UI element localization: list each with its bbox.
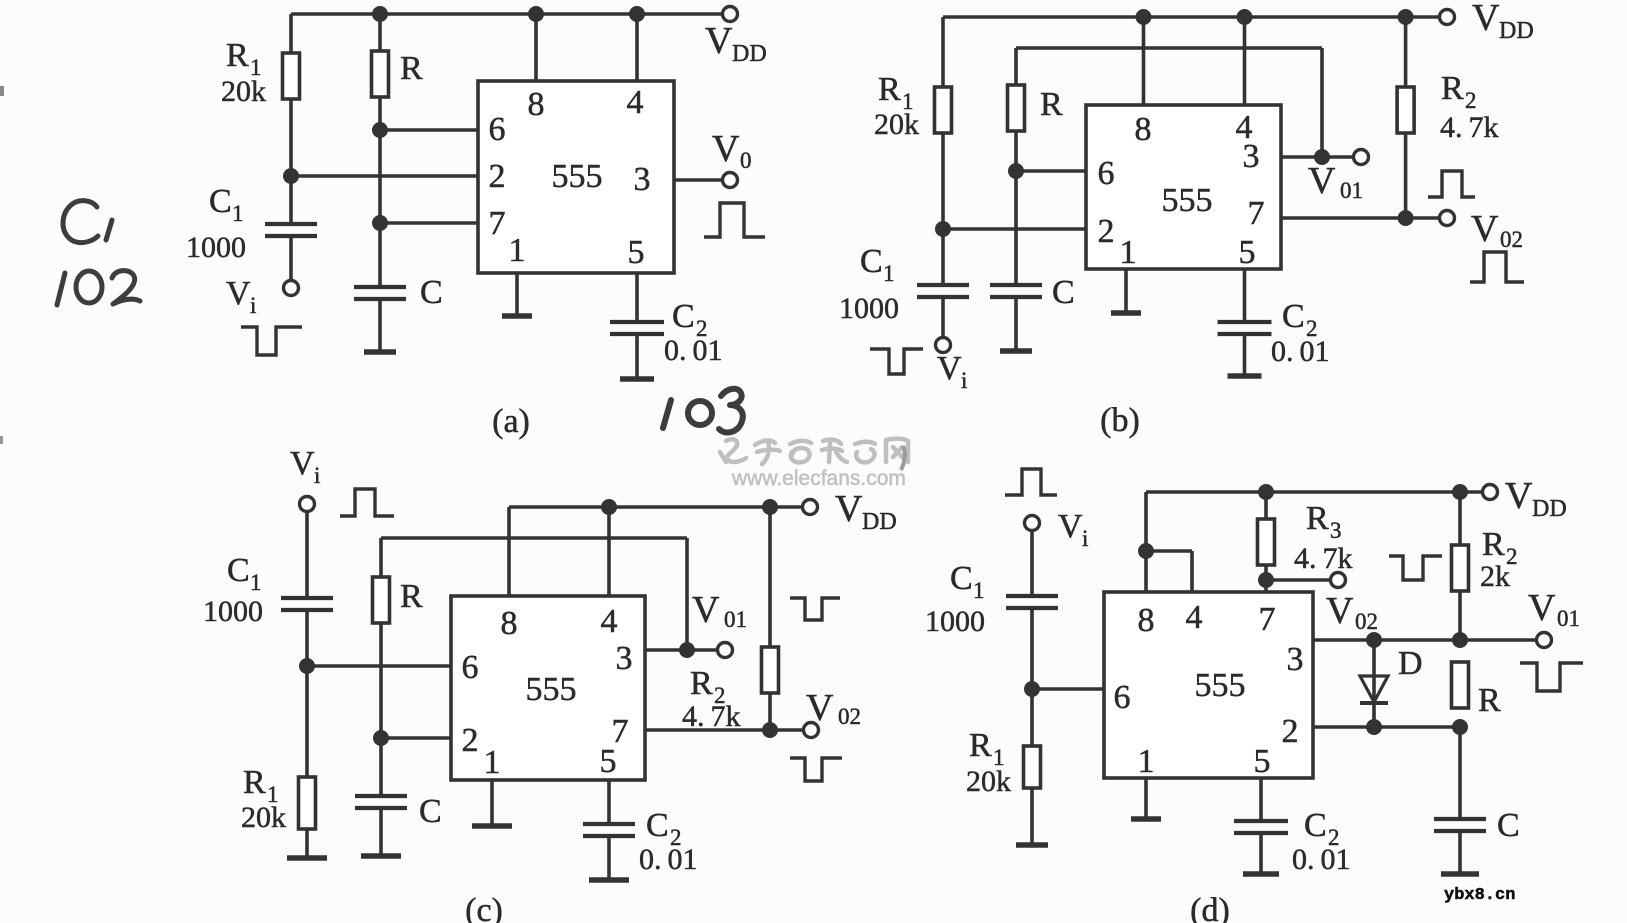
svg-text:C: C bbox=[646, 807, 669, 844]
svg-text:DD: DD bbox=[732, 41, 767, 67]
svg-text:V: V bbox=[806, 687, 834, 729]
svg-text:(a): (a) bbox=[492, 403, 530, 440]
svg-text:8: 8 bbox=[528, 86, 545, 123]
svg-text:1: 1 bbox=[973, 578, 985, 603]
svg-text:2k: 2k bbox=[1480, 560, 1510, 593]
svg-text:7: 7 bbox=[489, 205, 506, 242]
svg-text:1: 1 bbox=[1138, 743, 1155, 780]
svg-text:R: R bbox=[243, 764, 266, 801]
svg-text:8: 8 bbox=[1135, 111, 1152, 148]
svg-text:4: 4 bbox=[1186, 599, 1203, 636]
svg-text:3: 3 bbox=[1243, 138, 1260, 175]
svg-text:0. 01: 0. 01 bbox=[639, 843, 698, 876]
svg-text:i: i bbox=[314, 463, 320, 488]
svg-text:02: 02 bbox=[1355, 609, 1378, 634]
svg-text:i: i bbox=[250, 293, 256, 318]
svg-text:2: 2 bbox=[1282, 713, 1299, 750]
svg-text:V: V bbox=[1471, 208, 1499, 250]
svg-text:01: 01 bbox=[1340, 178, 1363, 203]
svg-text:R: R bbox=[226, 37, 249, 74]
svg-text:V: V bbox=[1472, 0, 1500, 39]
svg-text:02: 02 bbox=[1500, 227, 1523, 252]
svg-text:R: R bbox=[400, 50, 423, 87]
svg-text:1000: 1000 bbox=[186, 231, 246, 264]
svg-text:5: 5 bbox=[1254, 743, 1271, 780]
svg-text:5: 5 bbox=[600, 743, 617, 780]
svg-text:3: 3 bbox=[616, 640, 633, 677]
svg-text:1000: 1000 bbox=[203, 595, 263, 628]
svg-text:1: 1 bbox=[232, 201, 244, 226]
svg-text:(c): (c) bbox=[465, 892, 503, 923]
svg-text:20k: 20k bbox=[241, 801, 286, 834]
svg-text:ybx8.cn: ybx8.cn bbox=[1444, 886, 1515, 905]
svg-text:R: R bbox=[1040, 86, 1063, 123]
svg-text:V: V bbox=[226, 275, 251, 312]
svg-text:555: 555 bbox=[1162, 182, 1213, 219]
svg-text:(b): (b) bbox=[1100, 402, 1140, 439]
svg-text:C: C bbox=[1282, 298, 1305, 335]
svg-text:1000: 1000 bbox=[925, 605, 985, 638]
svg-text:C: C bbox=[950, 560, 973, 597]
svg-text:DD: DD bbox=[862, 509, 897, 535]
svg-text:4: 4 bbox=[601, 603, 618, 640]
svg-text:C: C bbox=[1497, 807, 1520, 844]
svg-text:4. 7k: 4. 7k bbox=[1440, 111, 1499, 144]
svg-text:20k: 20k bbox=[221, 75, 266, 108]
svg-text:DD: DD bbox=[1499, 18, 1534, 44]
svg-text:2: 2 bbox=[1465, 88, 1477, 113]
svg-text:01: 01 bbox=[724, 607, 747, 632]
svg-text:2: 2 bbox=[462, 722, 479, 759]
svg-text:4: 4 bbox=[627, 84, 644, 121]
svg-text:6: 6 bbox=[462, 649, 479, 686]
svg-text:0. 01: 0. 01 bbox=[664, 334, 723, 367]
svg-text:2: 2 bbox=[1098, 213, 1115, 250]
svg-text:0. 01: 0. 01 bbox=[1271, 335, 1330, 368]
svg-text:C: C bbox=[860, 243, 883, 280]
svg-text:8: 8 bbox=[1138, 602, 1155, 639]
svg-text:7: 7 bbox=[1259, 601, 1276, 638]
svg-text:R: R bbox=[690, 665, 713, 702]
svg-text:02: 02 bbox=[838, 704, 861, 729]
svg-text:R: R bbox=[1441, 70, 1464, 107]
svg-text:555: 555 bbox=[552, 158, 603, 195]
svg-text:C: C bbox=[1052, 274, 1075, 311]
svg-text:6: 6 bbox=[489, 111, 506, 148]
svg-text:20k: 20k bbox=[874, 108, 919, 141]
svg-text:V: V bbox=[835, 488, 863, 530]
svg-text:8: 8 bbox=[501, 605, 518, 642]
svg-text:V: V bbox=[1326, 590, 1354, 632]
svg-text:i: i bbox=[961, 368, 967, 393]
svg-text:1: 1 bbox=[1120, 234, 1137, 271]
svg-text:V: V bbox=[1058, 508, 1083, 545]
svg-text:20k: 20k bbox=[966, 765, 1011, 798]
svg-text:V: V bbox=[1505, 475, 1533, 517]
svg-text:1: 1 bbox=[509, 232, 526, 269]
svg-text:5: 5 bbox=[628, 234, 645, 271]
svg-text:C: C bbox=[419, 793, 442, 830]
svg-text:01: 01 bbox=[1557, 606, 1580, 631]
svg-text:C: C bbox=[227, 552, 250, 589]
svg-text:C: C bbox=[420, 274, 443, 311]
svg-text:DD: DD bbox=[1532, 496, 1567, 522]
svg-text:V: V bbox=[692, 589, 720, 631]
svg-text:C: C bbox=[209, 183, 232, 220]
svg-text:R: R bbox=[969, 727, 992, 764]
svg-text:www.elecfans.com: www.elecfans.com bbox=[731, 467, 906, 490]
svg-text:V: V bbox=[937, 350, 962, 387]
svg-text:0. 01: 0. 01 bbox=[1292, 843, 1351, 876]
svg-text:R: R bbox=[400, 578, 423, 615]
svg-text:D: D bbox=[1398, 645, 1423, 682]
svg-text:4. 7k: 4. 7k bbox=[682, 700, 741, 733]
svg-text:R: R bbox=[1478, 682, 1501, 719]
svg-text:V: V bbox=[290, 445, 315, 482]
svg-text:7: 7 bbox=[1248, 195, 1265, 232]
svg-text:1: 1 bbox=[883, 261, 895, 286]
svg-text:0: 0 bbox=[740, 148, 752, 173]
svg-text:2: 2 bbox=[489, 158, 506, 195]
svg-text:(d): (d) bbox=[1190, 892, 1230, 923]
svg-text:3: 3 bbox=[634, 161, 651, 198]
svg-text:6: 6 bbox=[1114, 679, 1131, 716]
svg-text:1000: 1000 bbox=[839, 292, 899, 325]
svg-text:1: 1 bbox=[484, 744, 501, 781]
svg-text:V: V bbox=[705, 20, 733, 62]
svg-text:555: 555 bbox=[1195, 667, 1246, 704]
svg-text:R: R bbox=[878, 71, 901, 108]
svg-text:C: C bbox=[1304, 807, 1327, 844]
svg-text:5: 5 bbox=[1239, 234, 1256, 271]
svg-text:C: C bbox=[672, 298, 695, 335]
svg-text:V: V bbox=[1308, 160, 1336, 202]
svg-text:4. 7k: 4. 7k bbox=[1294, 542, 1353, 575]
svg-text:3: 3 bbox=[1330, 518, 1342, 543]
svg-text:6: 6 bbox=[1098, 155, 1115, 192]
svg-text:i: i bbox=[1082, 526, 1088, 551]
svg-text:555: 555 bbox=[526, 671, 577, 708]
svg-text:V: V bbox=[712, 128, 740, 170]
svg-text:V: V bbox=[1528, 587, 1556, 629]
svg-text:3: 3 bbox=[1287, 641, 1304, 678]
svg-text:R: R bbox=[1306, 500, 1329, 537]
svg-text:R: R bbox=[1482, 526, 1505, 563]
svg-text:1: 1 bbox=[250, 570, 262, 595]
